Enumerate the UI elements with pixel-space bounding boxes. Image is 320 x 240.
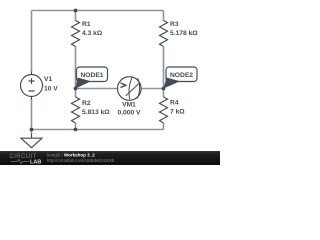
svg-text:NODE1: NODE1 bbox=[80, 72, 103, 79]
svg-text:R3: R3 bbox=[170, 21, 179, 28]
svg-text:4.3 kΩ: 4.3 kΩ bbox=[82, 30, 103, 37]
svg-text:VM1: VM1 bbox=[122, 102, 136, 109]
svg-text:5.813 kΩ: 5.813 kΩ bbox=[82, 109, 110, 116]
svg-text:http://circuitlab.com/c84bde62: http://circuitlab.com/c84bde6243c8b bbox=[47, 158, 115, 163]
svg-text:10 V: 10 V bbox=[44, 86, 58, 93]
svg-text:5.178 kΩ: 5.178 kΩ bbox=[170, 30, 198, 37]
svg-text:R4: R4 bbox=[170, 100, 179, 107]
svg-text:LAB: LAB bbox=[30, 160, 41, 166]
svg-text:NODE2: NODE2 bbox=[170, 72, 193, 79]
svg-text:kungl2 / Workshop 3_2: kungl2 / Workshop 3_2 bbox=[47, 153, 95, 158]
svg-text:V1: V1 bbox=[44, 76, 52, 83]
svg-text:R1: R1 bbox=[82, 21, 91, 28]
svg-text:R2: R2 bbox=[82, 100, 91, 107]
svg-text:0.000 V: 0.000 V bbox=[117, 110, 141, 117]
svg-text:7 kΩ: 7 kΩ bbox=[170, 109, 185, 116]
